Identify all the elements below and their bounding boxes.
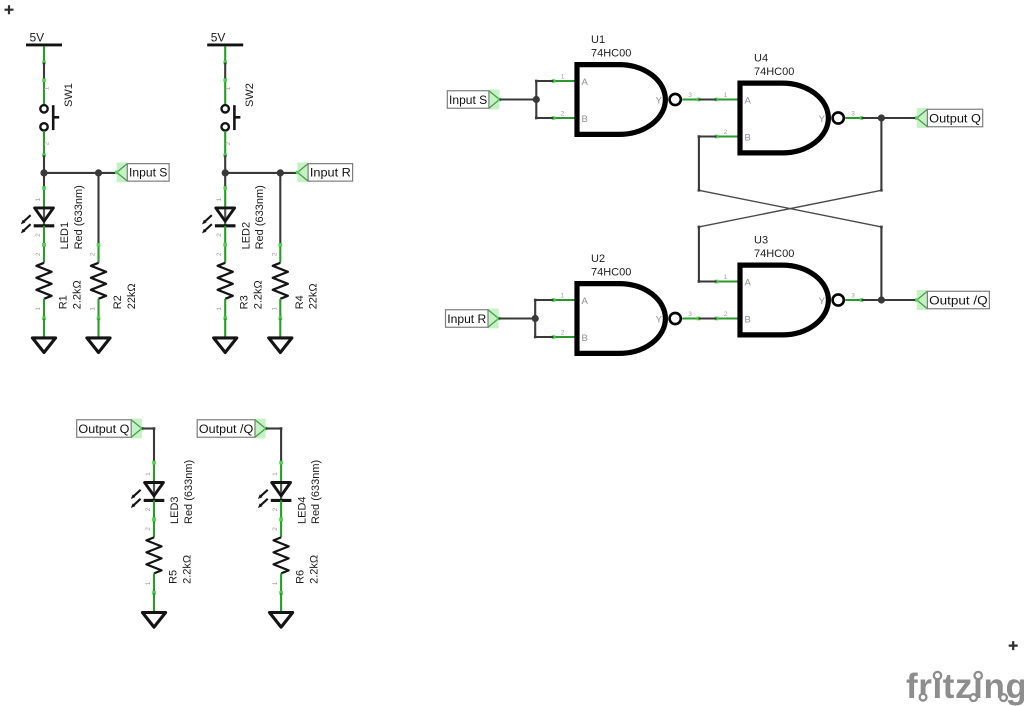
svg-text:Input R: Input R [310,166,351,180]
net flag Input R [296,163,353,183]
label LED4 Red (633nm) [296,460,322,524]
svg-text:1: 1 [145,472,152,476]
wire to U2 pin A [535,299,553,301]
wire node R [225,172,280,174]
wire Output Q flag [142,427,154,429]
svg-text:Y: Y [819,114,826,125]
LED LED2 [202,186,236,246]
switch SW1 [40,78,59,157]
svg-text:1: 1 [216,197,223,201]
svg-text:Input R: Input R [447,312,486,326]
label R1 2.2k&#937; [58,280,84,309]
svg-text:1: 1 [272,581,279,585]
wire U1.Y to U4.A [699,98,717,100]
svg-text:2: 2 [272,507,279,511]
wire Q down to U3.A [698,227,700,282]
svg-text:2: 2 [216,252,223,256]
label U3 74HC00 [754,235,794,260]
label R3 2.2k&#937; [239,280,265,309]
svg-text:Output /Q: Output /Q [929,293,988,307]
label LED2 Red (633nm) [240,185,266,249]
junction Q [878,114,885,121]
ground [269,318,292,352]
wire 5V to SW2 [224,63,226,81]
svg-text:Red (633nm): Red (633nm) [254,185,266,249]
wire to U1 pin A [536,80,553,82]
wire split U1 [535,81,537,118]
plus mark top-left [5,5,14,14]
net flag Input S [115,163,169,183]
svg-text:2: 2 [724,311,728,318]
wire to U1 pin B [536,117,553,119]
svg-text:1: 1 [272,472,279,476]
svg-text:B: B [745,133,751,144]
ground [32,318,55,352]
wire bend [880,189,883,192]
wire U4.Y to Output Q [862,117,917,119]
label U2 74HC00 [591,253,631,278]
svg-text:LED1: LED1 [59,222,71,250]
NAND gate U3 74HC00 [715,265,864,335]
svg-text:2: 2 [44,141,51,145]
svg-text:74HC00: 74HC00 [591,266,631,278]
wire SW1 to node S [43,155,45,173]
svg-text:U4: U4 [754,53,768,65]
svg-text:Y: Y [656,315,663,326]
wire node S to LED1 [43,173,45,188]
resistor R3 [218,243,233,320]
svg-text:Output Q: Output Q [78,422,129,436]
svg-text:SW2: SW2 [244,83,256,107]
svg-text:R3: R3 [239,295,251,309]
svg-text:U2: U2 [591,253,605,265]
svg-text:Input S: Input S [129,166,167,180]
wire to LED4 [280,429,282,463]
wire to LED3 [153,429,155,463]
junction node R [222,169,229,176]
svg-text:2.2kΩ: 2.2kΩ [181,555,193,584]
junction node S [40,169,47,176]
wire bend [698,226,701,229]
svg-text:1: 1 [44,86,51,90]
svg-text:LED3: LED3 [169,496,181,524]
ground [142,593,165,627]
wire node R to R4 [279,173,281,245]
LED LED4 [258,461,292,521]
wire bend [535,117,538,120]
net flag Output Q indicator [77,419,144,439]
svg-text:1: 1 [561,292,565,299]
wire node S to R2 [97,173,99,245]
svg-text:LED2: LED2 [240,222,252,250]
NAND gate U2 74HC00 [552,284,701,354]
junction Input S split [533,96,540,103]
net flag Input S source [447,90,501,110]
wire /Q up [880,227,882,300]
wire SW2 to node R [224,155,226,173]
svg-text:2: 2 [271,252,278,256]
svg-text:1: 1 [216,307,223,311]
wire /Q to U4 pin B [699,135,717,137]
svg-text:2: 2 [225,141,232,145]
wire bend [534,299,537,302]
svg-text:2: 2 [145,527,152,531]
svg-text:R6: R6 [295,570,307,584]
net flag Output /Q indicator [197,419,267,439]
wire node S [44,172,99,174]
resistor R6 [274,518,289,595]
svg-text:A: A [745,96,752,107]
wire Q down [880,118,882,190]
svg-text:3: 3 [851,292,855,299]
net flag Input R source [446,309,501,329]
label LED1 Red (633nm) [59,185,85,249]
svg-text:R4: R4 [294,295,306,309]
svg-text:R2: R2 [112,295,124,309]
junction node S / R2 [95,169,102,176]
NAND gate U4 74HC00 [715,83,864,153]
svg-text:U3: U3 [754,235,768,247]
svg-text:B: B [582,333,588,344]
resistor R1 [36,243,51,320]
svg-text:1: 1 [561,73,565,80]
LED LED3 [131,461,165,521]
wire node R to LED2 [224,173,226,188]
wire /Q up to U4.B [698,137,700,191]
svg-text:2: 2 [272,527,279,531]
wire to Input S flag [99,172,117,174]
resistor R2 [91,243,106,320]
svg-text:1: 1 [90,307,97,311]
svg-text:3: 3 [688,311,692,318]
svg-text:B: B [745,315,751,326]
svg-text:2: 2 [35,252,42,256]
wire bend [698,280,701,283]
svg-text:22kΩ: 22kΩ [126,283,138,309]
wire Input R to split [499,317,536,319]
net flag Output Q [915,108,983,128]
svg-text:Y: Y [819,296,826,307]
NAND gate U1 74HC00 [552,65,701,135]
label U1 74HC00 [591,34,631,59]
label R5 2.2k&#937; [168,555,194,584]
svg-text:2: 2 [724,129,728,136]
svg-text:1: 1 [35,197,42,201]
svg-text:Output Q: Output Q [929,111,981,125]
svg-text:2: 2 [35,233,42,237]
wire bend [534,336,537,339]
label U4 74HC00 [754,53,794,78]
wire to U2 pin B [535,336,553,338]
svg-text:2.2kΩ: 2.2kΩ [253,280,265,309]
ground [270,593,293,627]
svg-text:Red (633nm): Red (633nm) [73,185,85,249]
svg-text:5V: 5V [211,30,226,44]
svg-text:3: 3 [851,110,855,117]
svg-text:5V: 5V [30,30,45,44]
ground [214,318,237,352]
wire bend [698,189,701,192]
label LED3 Red (633nm) [169,460,195,524]
svg-text:1: 1 [145,581,152,585]
svg-text:2: 2 [561,110,565,117]
svg-text:2: 2 [145,507,152,511]
wire bend [153,427,156,430]
wire bend [280,427,283,430]
svg-text:1: 1 [271,307,278,311]
svg-text:Red (633nm): Red (633nm) [310,460,322,524]
svg-text:2.2kΩ: 2.2kΩ [71,280,83,309]
svg-text:2: 2 [216,233,223,237]
svg-text:1: 1 [35,307,42,311]
svg-text:2.2kΩ: 2.2kΩ [308,555,320,584]
junction /Q [878,296,885,303]
wire 5V to SW1 [43,63,45,81]
wire Input S to split [500,98,537,100]
svg-text:Red (633nm): Red (633nm) [183,460,195,524]
svg-text:3: 3 [688,92,692,99]
svg-text:LED4: LED4 [296,496,308,524]
resistor R5 [146,518,161,595]
svg-text:Input S: Input S [449,93,487,107]
wire bend [880,226,883,229]
svg-text:Output /Q: Output /Q [199,422,254,436]
svg-text:74HC00: 74HC00 [754,248,794,260]
wire Output /Q flag [266,427,282,429]
label R4 22k&#937; [294,283,320,309]
svg-text:2: 2 [561,329,565,336]
wire U3.Y to Output /Q [862,299,917,301]
power 5V supply 1 [26,30,62,62]
wire Q diagonal [699,190,882,227]
wire bend [698,135,701,138]
svg-text:A: A [582,296,589,307]
wire Q to U3 pin A [699,280,717,282]
svg-text:1: 1 [724,92,728,99]
junction node R / R4 [277,169,284,176]
svg-text:2: 2 [90,252,97,256]
svg-text:1: 1 [225,86,232,90]
svg-text:R5: R5 [168,570,180,584]
svg-text:1: 1 [724,274,728,281]
plus mark bottom-right [1009,641,1018,650]
svg-text:B: B [582,114,588,125]
power 5V supply 2 [207,30,243,62]
svg-text:R1: R1 [58,295,70,309]
label R6 2.2k&#937; [295,555,321,584]
svg-text:74HC00: 74HC00 [754,66,794,78]
wire split U2 [534,300,536,337]
wire bend [535,80,538,83]
switch SW2 [222,78,241,157]
wire U2.Y to U3.B [699,317,717,319]
svg-text:SW1: SW1 [63,83,75,107]
ground [87,318,110,352]
junction Input R split [532,315,539,322]
svg-text:74HC00: 74HC00 [591,47,631,59]
svg-text:A: A [582,77,589,88]
svg-text:22kΩ: 22kΩ [308,283,320,309]
svg-text:U1: U1 [591,34,605,46]
label R2 22k&#937; [112,283,138,309]
net flag Output /Q [915,290,989,310]
wire to Input R flag [280,172,297,174]
wire /Q diagonal [699,190,882,227]
LED LED1 [21,186,55,246]
svg-text:Y: Y [656,96,663,107]
resistor R4 [273,243,288,320]
svg-text:A: A [745,278,752,289]
